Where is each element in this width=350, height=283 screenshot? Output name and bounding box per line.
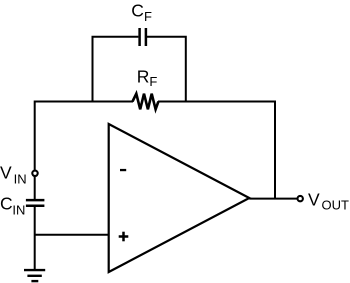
svg-text:OUT: OUT [322,197,350,212]
svg-text:C: C [131,0,144,20]
wire: right vertical from feedback down to output node [274,101,276,199]
svg-text:F: F [149,74,157,89]
wire: output from op-amp to V_OUT terminal [249,198,297,200]
op-amp non-inverting input sign (+) [119,232,129,242]
svg-text:V: V [0,163,12,183]
op-amp U1 (triangle) [109,124,250,272]
svg-text:R: R [137,67,150,87]
wire: feedback horizontal right part to output branch [158,101,275,103]
wire: left input vertical from feedback node down to V_IN terminal [34,101,36,171]
svg-text:IN: IN [14,171,27,186]
capacitor C_F [140,28,146,46]
resistor R_F [133,94,159,110]
wire: non-inverting input horizontal [35,234,109,236]
capacitor C_IN [26,200,45,206]
wire: from V_IN terminal down to C_IN [34,176,36,200]
svg-text:V: V [308,189,320,209]
svg-text:F: F [144,9,152,24]
terminal V_IN (open circle) [32,171,37,176]
wire: from C_IN down to ground, with junction to + input [34,206,36,270]
terminal V_OUT (open circle) [298,196,303,201]
ground [24,270,45,281]
wire: feedback horizontal at y=101.5 (left part up to resistor) [35,101,133,103]
op-amp inverting input sign (-) [120,169,126,171]
svg-text:IN: IN [12,202,25,217]
svg-text:C: C [0,194,13,214]
wire: C_F top loop (left leg, top-left segment, top-right segment, right leg) [93,37,186,102]
